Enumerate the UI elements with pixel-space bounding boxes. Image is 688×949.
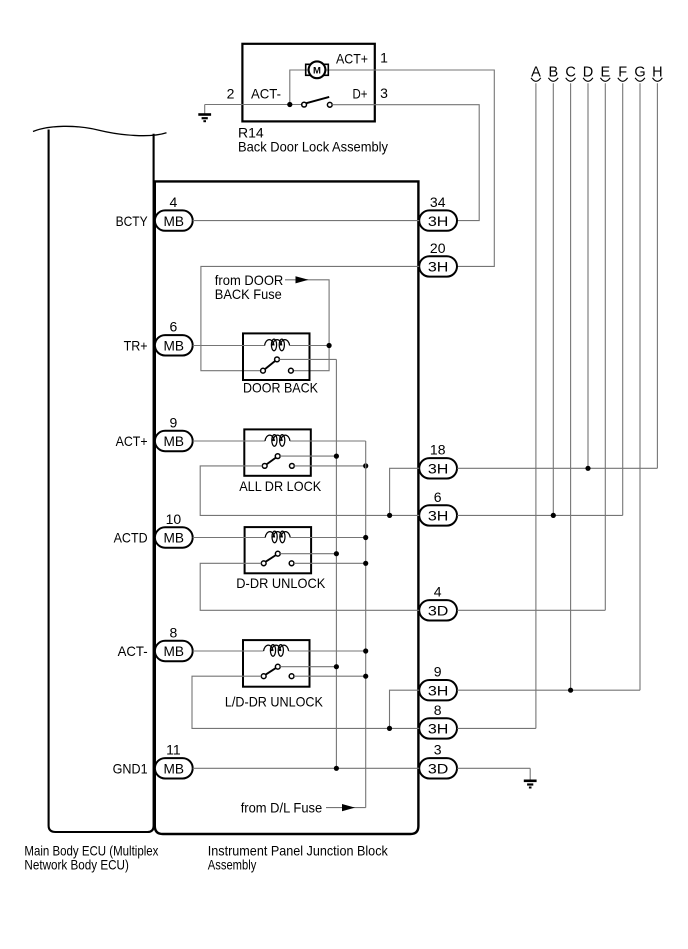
connector MB pin 9 (ACT+) <box>155 414 193 451</box>
pin label ACT- <box>251 85 281 101</box>
pin label D+ <box>353 85 368 101</box>
wire 3H9 stub to 3H8 net <box>390 690 420 728</box>
junction dot fuse bus / D-DR UNLOCK coil <box>363 535 368 540</box>
svg-text:BCTY: BCTY <box>116 213 149 229</box>
switch contact (pole) R14 <box>302 102 307 107</box>
wire motor left lead <box>290 70 309 105</box>
svg-text:MB: MB <box>164 213 185 229</box>
svg-text:MB: MB <box>164 433 185 449</box>
wire node D vertical <box>587 83 589 468</box>
svg-text:2: 2 <box>227 85 235 101</box>
svg-text:L/D-DR UNLOCK: L/D-DR UNLOCK <box>225 693 324 709</box>
label L/D-DR UNLOCK <box>225 693 324 709</box>
coil DOOR BACK relay <box>265 339 290 351</box>
svg-text:D+: D+ <box>353 85 368 101</box>
wire DOOR BACK fuse feed <box>285 280 329 371</box>
svg-text:DOOR BACK: DOOR BACK <box>243 380 319 396</box>
relay blade ALL DR LOCK <box>267 458 276 465</box>
motor M (door lock actuator) <box>306 61 329 78</box>
junction dot fuse bus / ALL DR LOCK NO <box>363 463 368 468</box>
wire node E vertical <box>604 83 606 610</box>
svg-text:3D: 3D <box>428 603 449 619</box>
relay contact pole D-DR UNLOCK <box>261 561 266 566</box>
svg-text:3D: 3D <box>428 761 449 777</box>
svg-text:34: 34 <box>430 194 446 210</box>
signal label ACTD <box>114 530 148 546</box>
label BACK Fuse <box>215 286 282 302</box>
wire node A vertical <box>535 83 537 728</box>
junction dot fuse bus / L/D-DR UNLOCK coil <box>363 648 368 653</box>
relay D-DR UNLOCK box <box>245 527 312 573</box>
ground (back door lock) <box>198 105 211 122</box>
wire D-DR UNLOCK pole to 3D4 <box>200 563 419 610</box>
junction dot node D on 3H18 net <box>585 466 590 471</box>
svg-text:MB: MB <box>164 761 185 777</box>
junction dot 3H9 stub <box>387 726 392 731</box>
caption Main Body ECU line 1 <box>24 843 158 859</box>
svg-text:B: B <box>548 64 558 80</box>
svg-text:ACT-: ACT- <box>118 643 148 659</box>
svg-text:MB: MB <box>164 643 185 659</box>
wire ACT- to switch pole <box>242 104 301 106</box>
wire node C vertical <box>570 83 572 690</box>
label Back Door Lock Assembly <box>238 139 388 155</box>
junction dot node C on 3H9 net <box>568 688 573 693</box>
wire switch to pin 3 <box>332 104 375 106</box>
Main Body ECU box (left, wavy top, rounded bottom) <box>33 126 167 832</box>
svg-text:8: 8 <box>434 702 442 718</box>
label DOOR BACK <box>243 380 319 396</box>
relay contact NO ALL DR LOCK <box>290 464 295 469</box>
wire node H vertical <box>656 83 658 468</box>
junction dot node B on 3H6 net <box>551 513 556 518</box>
ground (3D pin 3) <box>524 768 537 787</box>
junction dot motor/ACT- node <box>287 102 292 107</box>
wire node G vertical <box>639 83 641 690</box>
svg-text:H: H <box>652 64 662 80</box>
svg-text:3H: 3H <box>428 259 449 275</box>
wire 3H18 stub to 3H6 net <box>390 468 420 515</box>
svg-text:E: E <box>600 64 610 80</box>
wire L/D-DR UNLOCK NO to D/L fuse bus <box>294 675 366 677</box>
wire node F vertical <box>622 83 624 515</box>
wire L/D-DR UNLOCK NC to ground bus <box>280 666 336 668</box>
svg-text:F: F <box>618 64 627 80</box>
signal label ACT- <box>118 643 148 659</box>
svg-text:D: D <box>583 64 593 80</box>
node H <box>652 64 662 81</box>
connector MB pin 11 (GND1) <box>155 742 193 779</box>
back door lock assembly R14 box <box>242 44 374 122</box>
relay blade DOOR BACK <box>265 361 275 369</box>
svg-text:C: C <box>565 64 575 80</box>
relay L/D-DR UNLOCK box <box>243 640 310 687</box>
switch blade R14 <box>306 97 329 103</box>
caption junction block line 2 <box>208 856 256 872</box>
pin label ACT+ <box>336 51 368 67</box>
svg-text:3: 3 <box>380 85 388 101</box>
coil L/D-DR UNLOCK relay <box>264 645 289 657</box>
junction dot ground bus / ALL DR LOCK NC <box>334 454 339 459</box>
wire pin 3 D+ to connector 34 3H <box>375 105 479 221</box>
svg-text:3H: 3H <box>428 508 449 524</box>
wire D/L fuse bus vertical <box>365 441 367 808</box>
wire 3H20 to DOOR BACK relay pole <box>201 266 419 370</box>
svg-text:M: M <box>313 65 321 76</box>
svg-text:ACT+: ACT+ <box>336 51 368 67</box>
svg-text:Back Door Lock Assembly: Back Door Lock Assembly <box>238 139 388 155</box>
pin number 2 <box>227 85 235 101</box>
wire L/D-DR UNLOCK coil to D/L fuse bus <box>289 650 366 652</box>
relay DOOR BACK box <box>243 333 310 380</box>
node F <box>618 64 628 81</box>
relay contact NO D-DR UNLOCK <box>289 561 294 566</box>
wire 3D4 to node E <box>457 609 605 611</box>
svg-text:MB: MB <box>164 338 185 354</box>
wire ALL DR LOCK pole to 3H6 <box>200 466 419 516</box>
switch contact D+ R14 <box>327 102 332 107</box>
junction dot ground bus / GND1 <box>334 766 339 771</box>
wire D-DR UNLOCK coil to D/L fuse bus <box>290 537 366 539</box>
svg-text:8: 8 <box>170 624 178 640</box>
svg-text:A: A <box>531 64 541 80</box>
node E <box>600 64 610 81</box>
svg-text:3H: 3H <box>428 461 449 477</box>
svg-text:3H: 3H <box>428 213 449 229</box>
svg-text:ACT+: ACT+ <box>116 433 148 449</box>
relay contact NC DOOR BACK <box>275 357 280 362</box>
connector 3H pin 6 <box>419 489 457 526</box>
relay contact NC D-DR UNLOCK <box>275 551 280 556</box>
wire L/D-DR UNLOCK pole to 3H8 <box>192 676 419 728</box>
signal label BCTY <box>116 213 149 229</box>
wire GND1 MB11 to 3D3 <box>193 767 420 769</box>
svg-text:ACT-: ACT- <box>251 85 281 101</box>
svg-text:3: 3 <box>434 742 442 758</box>
wire pin 1 ACT+ to connector 20 3H <box>375 70 494 266</box>
connector 3H pin 20 <box>419 240 457 277</box>
wire DOOR BACK coil to fuse node <box>290 345 330 347</box>
wire D-DR UNLOCK NC to ground bus <box>280 553 336 555</box>
connector 3H pin 9 <box>419 664 457 701</box>
svg-text:6: 6 <box>434 489 442 505</box>
wire 3H9 to node G <box>457 689 640 691</box>
wire DOOR BACK NC to ground bus <box>279 358 336 360</box>
wire ALL DR LOCK coil to D/L fuse bus <box>290 440 366 442</box>
connector MB pin 8 (ACT-) <box>155 624 193 661</box>
label from DOOR <box>215 272 283 288</box>
relay ALL DR LOCK box <box>244 429 310 475</box>
node D <box>583 64 593 81</box>
wire ACTD MB10 to D-DR UNLOCK coil <box>193 537 266 539</box>
node A <box>531 64 541 81</box>
label D-DR UNLOCK <box>236 575 326 591</box>
wire ground bus vertical <box>335 359 337 768</box>
relay blade D-DR UNLOCK <box>266 555 277 562</box>
wire 3D3 to ground <box>457 767 530 769</box>
connector MB pin 10 (ACTD) <box>155 511 193 548</box>
signal label TR+ <box>124 338 148 354</box>
junction dot ground bus / L/D-DR UNLOCK NC <box>334 664 339 669</box>
wire ALL DR LOCK NC to ground bus <box>280 455 336 457</box>
relay contact NO L/D-DR UNLOCK <box>289 674 294 679</box>
svg-text:4: 4 <box>170 194 178 210</box>
wire BCTY MB4 to 3H34 <box>193 220 420 222</box>
coil ALL DR LOCK relay <box>265 435 290 447</box>
connector MB pin 4 (BCTY) <box>155 194 193 231</box>
wire 3H6 to node F <box>457 514 623 516</box>
connector 3H pin 34 <box>419 194 457 231</box>
node G <box>634 64 645 81</box>
junction dot DOOR BACK coil/fuse <box>327 343 332 348</box>
connector 3D pin 4 <box>419 584 457 621</box>
node C <box>565 64 575 81</box>
svg-text:4: 4 <box>434 584 442 600</box>
signal label GND1 <box>113 761 148 777</box>
svg-text:BACK Fuse: BACK Fuse <box>215 286 282 302</box>
wire ACT+ MB9 to ALL DR LOCK coil <box>193 440 265 442</box>
svg-text:11: 11 <box>166 742 181 758</box>
relay contact pole L/D-DR UNLOCK <box>261 674 266 679</box>
relay contact pole DOOR BACK <box>261 368 266 373</box>
svg-text:ACTD: ACTD <box>114 530 148 546</box>
wire ALL DR LOCK NO to D/L fuse bus <box>294 465 365 467</box>
connector 3H pin 18 <box>419 442 457 479</box>
connector 3D pin 3 <box>419 742 457 779</box>
pin number 1 <box>380 49 388 65</box>
svg-text:3H: 3H <box>428 682 449 698</box>
svg-text:1: 1 <box>380 49 388 65</box>
wire ACT- MB8 to L/D-DR UNLOCK coil <box>193 650 264 652</box>
svg-text:Network Body ECU): Network Body ECU) <box>24 856 128 872</box>
svg-text:Assembly: Assembly <box>208 856 256 872</box>
wire TR+ MB6 to DOOR BACK coil <box>193 345 265 347</box>
svg-text:D-DR UNLOCK: D-DR UNLOCK <box>236 575 326 591</box>
node B <box>548 64 558 81</box>
svg-text:6: 6 <box>170 319 178 335</box>
connector 3H pin 8 <box>419 702 457 739</box>
wire node B vertical <box>552 83 554 515</box>
svg-text:18: 18 <box>430 442 446 458</box>
relay contact NC L/D-DR UNLOCK <box>275 664 280 669</box>
Instrument Panel Junction Block box <box>155 181 419 834</box>
relay blade L/D-DR UNLOCK <box>266 668 277 675</box>
svg-text:from D/L Fuse: from D/L Fuse <box>241 799 323 815</box>
svg-text:20: 20 <box>430 240 446 256</box>
svg-text:9: 9 <box>170 414 178 430</box>
label ALL DR LOCK <box>239 478 322 494</box>
svg-text:MB: MB <box>164 530 185 546</box>
wire from D/L fuse feed <box>326 807 366 809</box>
svg-text:3H: 3H <box>428 721 449 737</box>
caption Main Body ECU line 2 <box>24 856 128 872</box>
connector MB pin 6 (TR+) <box>155 319 193 356</box>
pin number 3 <box>380 85 388 101</box>
junction dot fuse bus / L/D-DR UNLOCK NO <box>363 674 368 679</box>
svg-text:GND1: GND1 <box>113 761 148 777</box>
wire pin 2 to ground <box>205 104 243 106</box>
wire motor right lead to pin 1 <box>326 69 375 71</box>
coil D-DR UNLOCK relay <box>265 531 290 543</box>
junction dot fuse bus / D-DR UNLOCK NO <box>363 561 368 566</box>
arrowhead D/L fuse <box>342 804 355 811</box>
wire 3H8 to node A <box>457 727 536 729</box>
relay contact NO DOOR BACK <box>289 368 294 373</box>
svg-text:10: 10 <box>166 511 182 527</box>
junction dot 3H18 stub <box>387 513 392 518</box>
svg-text:TR+: TR+ <box>124 338 148 354</box>
svg-text:G: G <box>634 64 645 80</box>
caption junction block line 1 <box>208 843 389 859</box>
label R14 <box>238 125 264 141</box>
arrowhead DOOR BACK fuse <box>296 276 309 283</box>
signal label ACT+ <box>116 433 148 449</box>
relay contact pole ALL DR LOCK <box>262 464 267 469</box>
label from D/L Fuse <box>241 799 323 815</box>
svg-text:ALL DR LOCK: ALL DR LOCK <box>239 478 322 494</box>
wire 3H18 to node H <box>457 467 657 469</box>
svg-text:9: 9 <box>434 664 442 680</box>
junction dot ground bus / D-DR UNLOCK NC <box>334 551 339 556</box>
wire D-DR UNLOCK NO to D/L fuse bus <box>294 562 366 564</box>
relay contact NC ALL DR LOCK <box>275 454 280 459</box>
